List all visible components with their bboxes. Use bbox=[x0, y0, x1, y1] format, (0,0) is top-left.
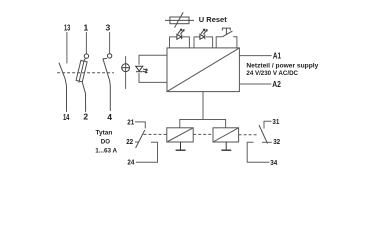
LED D2 light arrows bbox=[178, 29, 184, 34]
terminal circle pole2 bbox=[84, 54, 88, 58]
wire circle to fuse carrier bbox=[84, 58, 86, 60]
LED D1 (pointing down) bbox=[136, 66, 143, 72]
indicator lamp P1 bbox=[122, 64, 130, 72]
LED D3 light arrows bbox=[201, 29, 207, 34]
wire terminal 34 bracket bbox=[247, 142, 269, 162]
changeover arm right bbox=[259, 125, 268, 144]
svg-text:32: 32 bbox=[273, 139, 280, 146]
svg-text:A2: A2 bbox=[272, 80, 281, 89]
svg-text:2: 2 bbox=[83, 112, 88, 122]
wire terminal 13 lead bbox=[66, 32, 68, 63]
relay K1 bbox=[167, 128, 193, 142]
ground K1 bbox=[176, 142, 186, 150]
terminal circle pole3 bbox=[107, 54, 111, 58]
svg-text:21: 21 bbox=[127, 119, 134, 126]
LED D1 light arrows bbox=[143, 69, 148, 73]
svg-text:13: 13 bbox=[64, 23, 70, 33]
svg-text:24: 24 bbox=[127, 160, 134, 167]
indicator lamp line bbox=[125, 56, 127, 89]
wire terminal 1 lead bbox=[85, 32, 87, 54]
switch contact pole3 arm 3-4 bbox=[103, 59, 110, 111]
svg-text:3: 3 bbox=[106, 23, 111, 33]
svg-text:14: 14 bbox=[63, 112, 70, 122]
LED D2 (pointing right) bbox=[177, 34, 182, 39]
wire terminal 22 bbox=[135, 141, 139, 143]
svg-text:24 V/230 V AC/DC: 24 V/230 V AC/DC bbox=[246, 70, 298, 77]
LED D2 staple bbox=[170, 37, 177, 48]
relay K2 bbox=[213, 128, 239, 142]
fuse symbol (U Reset) bbox=[165, 12, 194, 27]
pushbutton S1 bbox=[222, 28, 232, 37]
svg-text:1...63 A: 1...63 A bbox=[95, 147, 117, 154]
block diagonal bbox=[167, 48, 239, 92]
LED D3 (pointing right) bbox=[200, 34, 205, 39]
dashed link left contact to K1 bbox=[144, 133, 167, 135]
svg-text:Tytan: Tytan bbox=[96, 130, 113, 137]
wire T-bar bbox=[180, 120, 226, 128]
wire terminal 32 bbox=[262, 141, 272, 143]
dashed link K1 to K2 bbox=[193, 133, 213, 135]
wire terminal 31 bbox=[264, 121, 272, 128]
svg-text:DO: DO bbox=[101, 138, 110, 145]
wire terminal 24 bracket bbox=[136, 142, 158, 162]
fuse carrier F1 (tilted) bbox=[76, 59, 88, 83]
dashed link K2 to right contact bbox=[239, 134, 258, 136]
wire A1 bbox=[239, 55, 271, 57]
changeover arm left bbox=[136, 130, 145, 148]
svg-text:31: 31 bbox=[272, 119, 279, 126]
wire block bottom stem bbox=[202, 92, 204, 120]
ground K2 bbox=[221, 142, 231, 150]
mechanical linkage dashed line (breaker) bbox=[57, 72, 114, 74]
svg-text:22: 22 bbox=[126, 139, 133, 146]
svg-text:34: 34 bbox=[270, 160, 277, 167]
svg-text:4: 4 bbox=[107, 112, 112, 122]
svg-text:U Reset: U Reset bbox=[199, 15, 227, 24]
wire fuse carrier to terminal 2 bbox=[82, 82, 85, 112]
power supply block U1 bbox=[167, 48, 239, 92]
svg-text:1: 1 bbox=[84, 23, 89, 33]
svg-text:A1: A1 bbox=[273, 52, 282, 61]
wire terminal 21 bbox=[135, 122, 145, 129]
LED D3 staple bbox=[194, 37, 200, 48]
pushbutton S1 staple bbox=[216, 37, 222, 48]
contact tail pole3 bbox=[103, 58, 107, 60]
svg-text:Netzteil / power supply: Netzteil / power supply bbox=[246, 63, 318, 70]
wire terminal 3 lead bbox=[109, 32, 111, 54]
wire A2 bbox=[239, 83, 271, 85]
switch contact pole1 arm 13-14 bbox=[59, 63, 67, 112]
LED D1 branch staple bbox=[139, 55, 167, 65]
